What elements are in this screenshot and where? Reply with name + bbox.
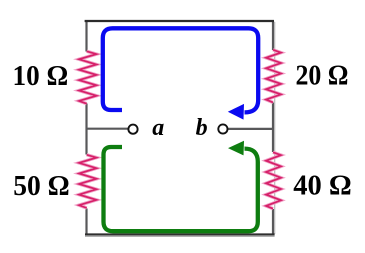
svg-text:20 Ω: 20 Ω: [296, 59, 349, 91]
svg-text:50 Ω: 50 Ω: [13, 170, 69, 202]
svg-text:10 Ω: 10 Ω: [13, 60, 69, 92]
svg-text:40 Ω: 40 Ω: [293, 169, 352, 201]
svg-text:b: b: [196, 115, 208, 141]
svg-text:a: a: [152, 115, 164, 141]
